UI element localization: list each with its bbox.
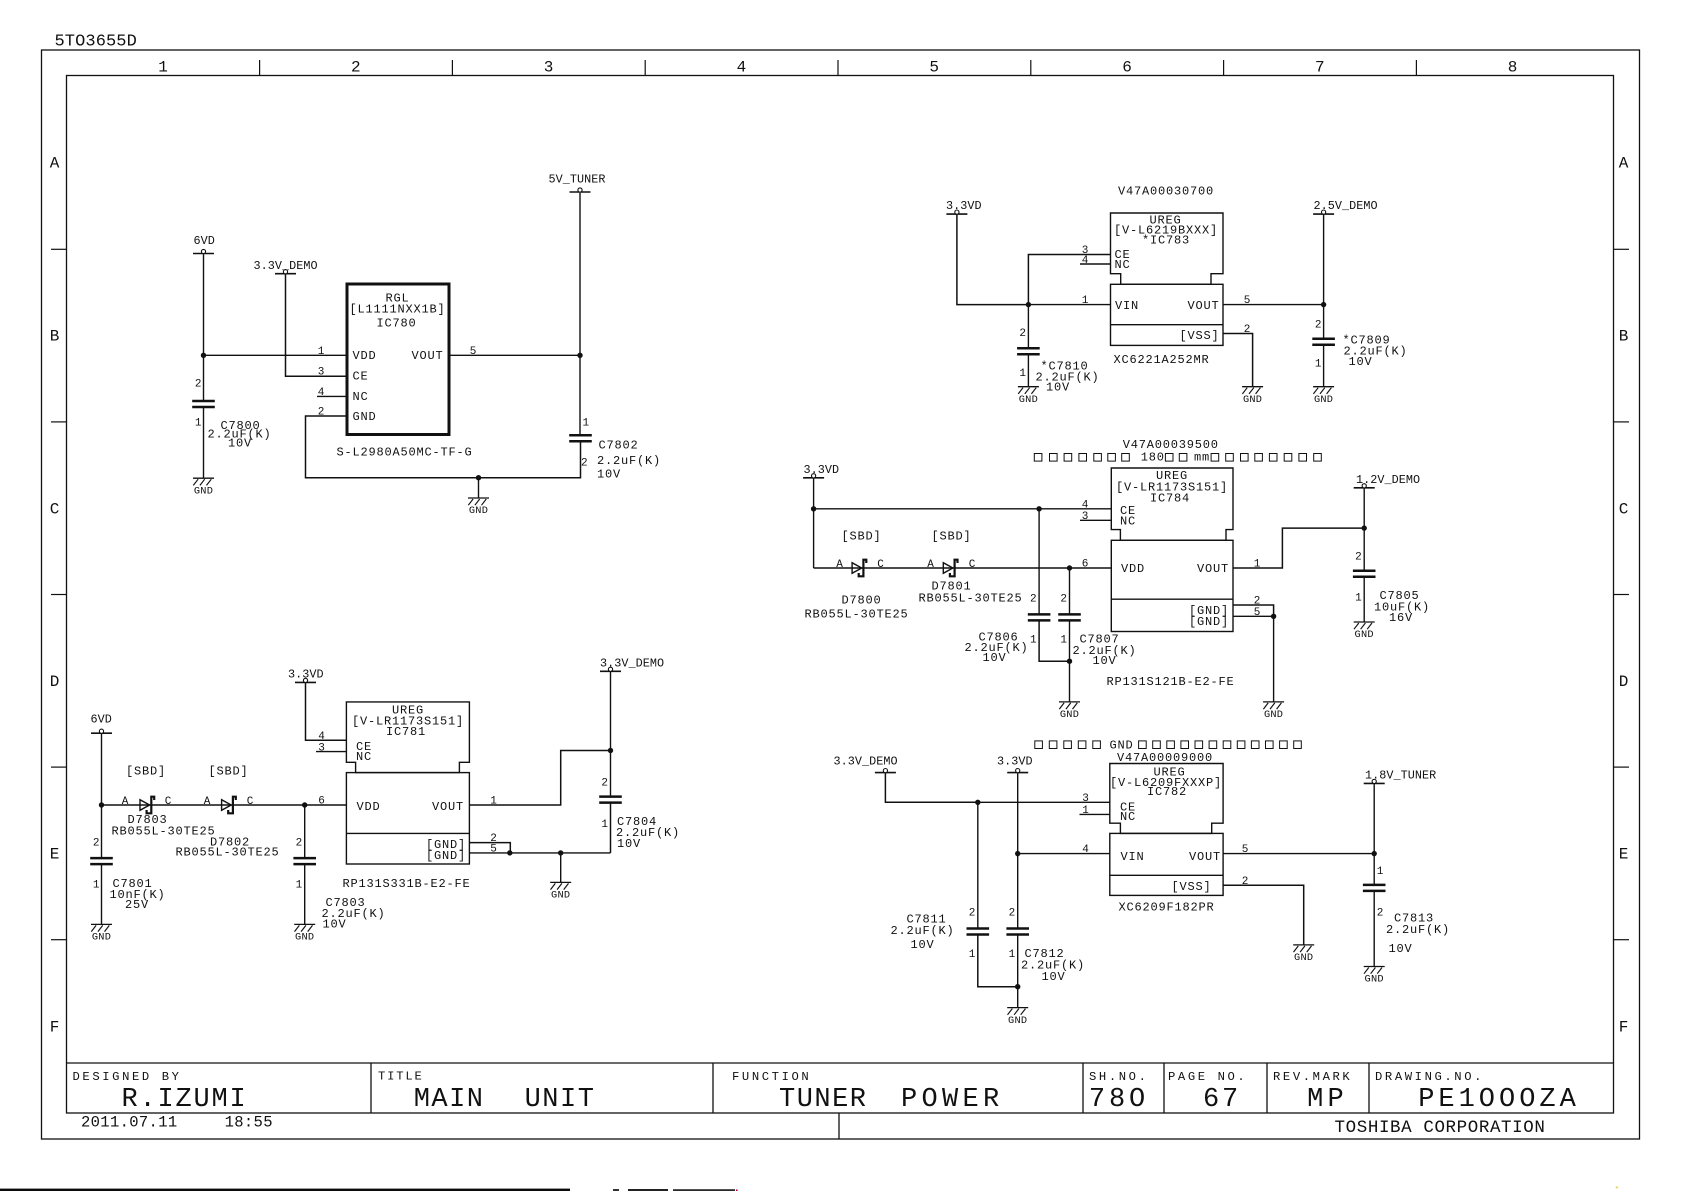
part number S-L2980A50MC-TF-G (337, 446, 473, 460)
wire VIN pin 4 IC782 (1018, 853, 1110, 855)
power terminal 3.3VD (IC782) (997, 754, 1033, 772)
wire IC784 GND pin 5 (1233, 615, 1274, 617)
svg-text:B: B (50, 328, 60, 346)
IC782 pin name VOUT (1189, 850, 1221, 864)
node junction 3.3VD/VIN (1015, 851, 1020, 856)
wire VSS pin 2 IC782 (1223, 885, 1304, 945)
svg-text:1: 1 (1377, 866, 1384, 878)
svg-text:2.5V_DEMO: 2.5V_DEMO (1314, 199, 1378, 213)
svg-text:*IC783: *IC783 (1142, 234, 1190, 248)
value MP (1307, 1085, 1348, 1115)
IC781 pin name VOUT (432, 800, 464, 814)
svg-text:[L1111NXX1B]: [L1111NXX1B] (349, 303, 445, 317)
svg-text:2: 2 (1315, 320, 1322, 332)
svg-text:6VD: 6VD (91, 712, 112, 726)
IC783 pin name VOUT (1187, 299, 1219, 313)
IC784 pin name [GND] lower (1189, 615, 1229, 629)
ground symbol C7813 (1364, 967, 1385, 974)
svg-text:5: 5 (490, 844, 497, 856)
IC782 pin name [VSS] (1171, 880, 1211, 894)
ground label GND IC781 (551, 890, 570, 902)
svg-text:2: 2 (195, 379, 202, 391)
sheet code 5T03655D (55, 33, 137, 52)
capacitor C7804 (599, 797, 622, 803)
pin 3 label IC780 CE (318, 367, 325, 379)
pin 1 label IC782 NC (1082, 805, 1089, 817)
IC783 pin name NC (1115, 258, 1131, 272)
capacitor C7801 (90, 858, 113, 864)
svg-text:10V: 10V (983, 651, 1007, 665)
svg-text:GND: GND (1264, 709, 1283, 721)
pin 1 label C7812 (1009, 949, 1016, 961)
IC782 pin name VIN (1121, 850, 1145, 864)
svg-text:2: 2 (1242, 876, 1249, 888)
IC784 pin name CE (1120, 504, 1136, 518)
capacitor C7802 (569, 435, 592, 441)
pin 1 label C7813 (1377, 866, 1384, 878)
anode label A D7801 (927, 559, 934, 571)
svg-text:6: 6 (1122, 59, 1132, 77)
wire CE rail to pin 3 (978, 801, 1110, 803)
svg-text:1: 1 (1082, 805, 1089, 817)
diode D7800 (852, 560, 866, 577)
svg-text:18:55: 18:55 (225, 1114, 273, 1132)
svg-text:MAIN: MAIN (414, 1085, 485, 1115)
wire C7810 to ground (1027, 354, 1029, 386)
pin 1 label C7809 (1315, 359, 1322, 371)
svg-text:[VSS]: [VSS] (1171, 880, 1211, 894)
cathode label C D7800 (877, 559, 884, 571)
svg-text:3.3V_DEMO: 3.3V_DEMO (834, 754, 898, 768)
wire diode rail to VDD (102, 804, 347, 806)
svg-text:2.2uF(K): 2.2uF(K) (1386, 923, 1450, 937)
svg-text:16V: 16V (1389, 611, 1413, 625)
svg-text:IC782: IC782 (1147, 785, 1187, 799)
wire IC781 GND pin 2 (469, 843, 510, 853)
IC781 pin name NC (356, 750, 372, 764)
value label C7807 2.2uF(K) 10V (1073, 632, 1137, 668)
svg-text:1: 1 (969, 949, 976, 961)
ground symbol IC782 VSS (1293, 945, 1314, 952)
power terminal 2.5V_DEMO (1313, 199, 1378, 214)
ground symbol C7810 (1018, 387, 1039, 394)
svg-text:6VD: 6VD (194, 234, 215, 248)
svg-text:GND: GND (1060, 709, 1079, 721)
wire IC784 GND to ground (1273, 616, 1275, 702)
svg-text:2: 2 (1009, 907, 1016, 919)
svg-text:3.3VD: 3.3VD (804, 463, 840, 477)
node junction C7806/C7807 ground (1067, 659, 1072, 664)
svg-text:1: 1 (1060, 634, 1067, 646)
wire C7807 to ground (1069, 620, 1071, 702)
pin 4 stub IC783 NC (1080, 263, 1111, 265)
svg-text:V47A00030700: V47A00030700 (1118, 184, 1214, 198)
svg-text:10V: 10V (228, 437, 252, 451)
svg-text:3.3VD: 3.3VD (288, 668, 324, 682)
IC784 pin name NC (1120, 515, 1136, 529)
svg-text:1: 1 (296, 880, 303, 892)
svg-text:1: 1 (583, 418, 590, 430)
ground label GND IC780 (469, 505, 488, 517)
svg-text:[VSS]: [VSS] (1179, 329, 1219, 343)
svg-text:2: 2 (1254, 596, 1261, 608)
pin 2 label C7809 (1315, 320, 1322, 332)
wire C7807 vertical (1069, 568, 1071, 614)
svg-text:F: F (1619, 1018, 1629, 1036)
svg-text:NC: NC (1120, 515, 1136, 529)
wire ground rail stub (478, 478, 480, 498)
ground symbol IC783 VSS (1242, 387, 1263, 394)
label REV.MARK (1273, 1070, 1352, 1084)
pin 2 label C7812 (1009, 907, 1016, 919)
pin 2 label C7811 (969, 907, 976, 919)
placeholder glyph boxes row (left) with 180 mm note (1034, 451, 1321, 465)
row ticks left band (51, 249, 67, 939)
IC783 name labels UREG [V-L6219BXXX] *IC783 (1114, 214, 1218, 248)
svg-text:PE1OOOZA: PE1OOOZA (1418, 1085, 1580, 1115)
wire C7801 to ground (101, 864, 103, 924)
ground symbol C7805 (1354, 622, 1375, 629)
IC780 name labels RGL [L1111NXX1B] IC780 (349, 292, 445, 331)
pin 2 label C7800 (195, 379, 202, 391)
value label C7804 2.2uF(K) 10V (616, 815, 680, 851)
capacitor C7800 (192, 401, 215, 407)
svg-text:B: B (1619, 328, 1629, 346)
op-amp U IC782 top box (1110, 764, 1223, 834)
node junction ground rail (476, 475, 481, 480)
svg-text:67: 67 (1203, 1085, 1241, 1115)
IC784 name labels UREG [V-LR1173S151] IC784 (1116, 469, 1228, 505)
anode label A D7800 (836, 559, 843, 571)
pin 4 label IC781 CE (318, 731, 325, 743)
pin 5 label IC781 GND (490, 844, 497, 856)
anode label A D7803 (122, 796, 129, 808)
node junction diode rail / C7803 (302, 802, 307, 807)
power terminal 3.3VD (IC783) (946, 199, 982, 214)
svg-text:RB055L-30TE25: RB055L-30TE25 (176, 845, 280, 859)
IC780 pin name VDD (353, 349, 377, 363)
svg-text:6: 6 (1082, 559, 1089, 571)
ground symbol C7809 (1313, 387, 1334, 394)
wire 3.3VD to CE pin IC781 (306, 683, 347, 740)
part number RP131S331B-E2-FE (343, 877, 471, 891)
ground label GND C7810 (1019, 394, 1038, 406)
power terminal 3.3VD (IC781) (288, 668, 324, 683)
svg-text:4: 4 (1082, 499, 1089, 511)
svg-text:7: 7 (1315, 59, 1325, 77)
IC784 pin name [GND] upper (1189, 604, 1229, 618)
node junction 6VD/diode rail (99, 802, 104, 807)
value label C7811 2.2uF(K) 10V (891, 913, 955, 953)
svg-text:GND: GND (295, 932, 314, 944)
pin 1 stub IC782 NC (1080, 813, 1110, 815)
svg-text:NC: NC (1120, 810, 1136, 824)
ref label D7800 RB055L-30TE25 (805, 593, 909, 621)
svg-text:3.3V_DEMO: 3.3V_DEMO (254, 259, 318, 273)
pin 2 label C7801 (93, 838, 100, 850)
ground label GND IC783 VSS (1243, 394, 1262, 406)
ground symbol C7800 (193, 478, 214, 485)
capacitor C7810 (1017, 348, 1040, 354)
svg-text:2: 2 (969, 907, 976, 919)
svg-text:1: 1 (1019, 368, 1026, 380)
ground label GND IC782 VSS (1294, 952, 1313, 964)
wire C7809 to ground (1323, 345, 1325, 387)
wire C7804 bottom to ground rail (610, 803, 612, 853)
svg-text:D7800: D7800 (842, 593, 882, 607)
svg-text:10V: 10V (1093, 654, 1117, 668)
svg-text:3: 3 (318, 367, 325, 379)
pin 5 label IC783 VOUT (1244, 295, 1251, 307)
IC784 pin name VDD (1121, 562, 1145, 576)
value label C7812 2.2uF(K) 10V (1021, 947, 1085, 984)
svg-text:VIN: VIN (1121, 850, 1145, 864)
node junction IC784 GND pins (1271, 614, 1276, 619)
svg-text:TUNER: TUNER (779, 1085, 868, 1115)
wire C7803 vertical (304, 805, 306, 858)
capacitor C7806 (1028, 614, 1051, 620)
pin 2 label C7802 (581, 458, 588, 470)
net label [SBD] D7800 (842, 530, 882, 544)
wire CE tie to VIN (1028, 255, 1110, 305)
svg-text:5: 5 (1242, 844, 1249, 856)
svg-text:2: 2 (581, 458, 588, 470)
svg-text:GND: GND (551, 890, 570, 902)
column ticks top band (260, 60, 1417, 76)
svg-text:[GND]: [GND] (426, 849, 466, 863)
label DESIGNED BY (73, 1070, 182, 1084)
svg-text:E: E (50, 846, 60, 864)
pin 5 label IC780 VOUT (470, 346, 477, 358)
wire C7800 to ground (203, 407, 205, 478)
svg-text:XC6221A252MR: XC6221A252MR (1114, 353, 1210, 367)
value label C7800 2.2uF(K) 10V (208, 419, 272, 451)
wire VOUT pin 5 IC782 (1223, 853, 1374, 855)
IC781 name labels UREG [V-LR1173S151] IC781 (352, 703, 464, 739)
label TITLE (378, 1070, 424, 1084)
node junction VDD rail / C7807 (1067, 565, 1072, 570)
part code V47A00009000 (1117, 751, 1213, 765)
svg-text:RB055L-30TE25: RB055L-30TE25 (805, 607, 909, 621)
title block dividers (371, 1063, 1369, 1139)
pin 4 label IC784 CE (1082, 499, 1089, 511)
svg-text:2: 2 (1030, 594, 1037, 606)
ground label GND C7813 (1365, 974, 1384, 986)
svg-text:2: 2 (318, 407, 325, 419)
power terminal 1.2V_DEMO (1354, 473, 1420, 488)
wire GND stub IC781 (560, 853, 562, 883)
svg-text:2: 2 (296, 838, 303, 850)
svg-text:VOUT: VOUT (1189, 850, 1221, 864)
wire CE rail to pin 4 (814, 508, 1112, 510)
wire 3.3V_DEMO vertical (IC781) (610, 672, 612, 797)
svg-text:2011.07.11: 2011.07.11 (81, 1114, 178, 1132)
svg-text:5: 5 (1244, 295, 1251, 307)
svg-text:F: F (50, 1018, 60, 1036)
svg-text:DESIGNED BY: DESIGNED BY (73, 1070, 182, 1084)
part number RP131S121B-E2-FE (1107, 675, 1235, 689)
svg-text:VDD: VDD (353, 349, 377, 363)
value label C7813 2.2uF(K) 10V (1386, 911, 1450, 956)
svg-text:[SBD]: [SBD] (842, 530, 882, 544)
svg-text:TOSHIBA CORPORATION: TOSHIBA CORPORATION (1335, 1118, 1546, 1138)
svg-text:GND: GND (1355, 629, 1374, 641)
svg-text:[SBD]: [SBD] (209, 765, 249, 779)
capacitor C7813 (1363, 885, 1386, 891)
ground label GND C7800 (194, 485, 213, 497)
IC781 pin name CE (356, 740, 372, 754)
value label C7801 10nF(K) 25V (110, 877, 166, 912)
svg-text:SH.NO.: SH.NO. (1089, 1070, 1148, 1084)
svg-text:10V: 10V (911, 938, 935, 952)
pin 6 label IC781 VDD (318, 796, 325, 808)
IC784 lower box (1111, 540, 1233, 631)
svg-text:E: E (1619, 846, 1629, 864)
value label C7802 2.2uF(K) 10V (597, 439, 661, 482)
svg-text:5: 5 (929, 59, 939, 77)
ground label GND C7801 (92, 932, 111, 944)
wire VOUT pin 5 IC780 (449, 354, 580, 356)
svg-text:10V: 10V (1042, 970, 1066, 984)
svg-text:D: D (1619, 673, 1629, 691)
capacitor C7805 (1353, 571, 1376, 577)
pin 2 label IC784 GND (1254, 596, 1261, 608)
wire 1.8V_TUNER vertical (1373, 784, 1375, 885)
IC781 pin name [GND] upper (426, 838, 466, 852)
svg-text:5V_TUNER: 5V_TUNER (549, 173, 606, 187)
svg-text:10V: 10V (1349, 355, 1373, 369)
svg-text:GND: GND (469, 505, 488, 517)
svg-text:C: C (50, 500, 60, 518)
ground label GND C7805 (1355, 629, 1374, 641)
label DRAWING.NO. (1375, 1070, 1484, 1084)
wire C7805 to ground (1363, 577, 1365, 622)
svg-text:VDD: VDD (1121, 562, 1145, 576)
svg-text:3: 3 (1082, 793, 1089, 805)
ground symbol IC781 (550, 882, 571, 889)
svg-text:RP131S331B-E2-FE: RP131S331B-E2-FE (343, 877, 471, 891)
pin 1 label C7801 (93, 880, 100, 892)
svg-text:C: C (969, 559, 976, 571)
value label C7806 2.2uF(K) 10V (965, 630, 1029, 665)
wire VOUT pin 5 IC783 (1223, 304, 1324, 306)
pin 3 stub IC784 NC (1080, 519, 1111, 521)
net label [SBD] D7802 (209, 765, 249, 779)
svg-text:R.IZUMI: R.IZUMI (121, 1085, 247, 1115)
node junction C7811/C7812 ground (1015, 984, 1020, 989)
svg-text:10V: 10V (617, 837, 641, 851)
value PE1000ZA (1418, 1085, 1580, 1115)
part number XC6209F182PR (1119, 901, 1215, 915)
cathode label C D7802 (247, 796, 254, 808)
svg-text:VOUT: VOUT (432, 800, 464, 814)
label SH.NO. (1089, 1070, 1148, 1084)
wire 2.5V_DEMO vertical (1323, 215, 1325, 339)
op-amp U IC781 top box (346, 702, 469, 773)
node junction VOUT/3.3V_DEMO (608, 748, 613, 753)
diode D7802 (222, 797, 236, 814)
svg-text:2.2uF(K): 2.2uF(K) (597, 454, 661, 468)
IC781 pin name VDD (357, 800, 381, 814)
svg-text:1: 1 (158, 59, 168, 77)
IC782 pin name CE (1120, 800, 1136, 814)
svg-text:GND: GND (1008, 1015, 1027, 1027)
pin 1 label C7800 (195, 418, 202, 430)
net label [SBD] D7801 (932, 530, 972, 544)
ground label GND C7803 (295, 932, 314, 944)
pin 2 label C7806 (1030, 594, 1037, 606)
svg-text:S-L2980A50MC-TF-G: S-L2980A50MC-TF-G (337, 446, 473, 460)
part number XC6221A252MR (1114, 353, 1210, 367)
pin 4 label IC782 VIN (1082, 844, 1089, 856)
wire C7811 vertical (977, 802, 979, 928)
svg-text:1: 1 (195, 418, 202, 430)
capacitor C7809 (1312, 339, 1335, 345)
svg-text:3.3VD: 3.3VD (997, 754, 1033, 768)
pin 1 label IC784 VOUT (1254, 559, 1261, 571)
svg-text:IC781: IC781 (386, 725, 426, 739)
anode label A D7802 (204, 796, 211, 808)
ground label GND C7809 (1314, 394, 1333, 406)
svg-text:2: 2 (1244, 324, 1251, 336)
svg-text:2: 2 (601, 778, 608, 790)
pin 3 label IC781 NC (318, 742, 325, 754)
svg-text:6: 6 (318, 796, 325, 808)
pin 2 label IC780 GND (318, 407, 325, 419)
node junction VOUT/1.8V_TUNER (1372, 851, 1377, 856)
value label *C7810 2.2uF(K) 10V (1036, 359, 1100, 394)
value 780 (1089, 1085, 1149, 1115)
power terminal 1.8V_TUNER (1364, 769, 1437, 784)
pin 1 label C7805 (1355, 592, 1362, 604)
svg-text:2: 2 (1060, 594, 1067, 606)
value TUNER POWER (779, 1085, 1004, 1115)
wire 3.3V_DEMO to CE pin (286, 274, 348, 376)
ref label D7801 RB055L-30TE25 (919, 579, 1023, 605)
svg-text:10V: 10V (323, 917, 347, 931)
op-amp U IC783 top box (1111, 213, 1224, 284)
diode D7803 (140, 797, 154, 814)
pin 1 label IC783 VIN (1082, 295, 1089, 307)
svg-text:MP: MP (1307, 1085, 1348, 1115)
svg-text:GND: GND (92, 932, 111, 944)
wire C7813 to ground (1373, 891, 1375, 967)
pin 1 label C7802 (583, 418, 590, 430)
pin 3 label IC783 CE (1082, 245, 1089, 257)
ground label GND C7812 (1008, 1015, 1027, 1027)
node junction 3.3VD/CE rail (811, 506, 816, 511)
svg-text:A: A (1619, 155, 1629, 173)
node junction CE rail / C7806 (1036, 506, 1041, 511)
wire 1.2V_DEMO vertical (1363, 489, 1365, 571)
wire 3.3VD vertical (IC782) (1017, 773, 1019, 928)
IC782 name labels UREG [V-L6209FXXXP] IC782 (1110, 765, 1222, 799)
part code V47A00039500 (1123, 438, 1219, 452)
IC783 pin name CE (1115, 248, 1131, 262)
pin 1 label C7807 (1060, 634, 1067, 646)
node junction IC781 GND pins (507, 850, 512, 855)
svg-text:D: D (50, 673, 60, 691)
pin 1 label C7810 (1019, 368, 1026, 380)
svg-text:C: C (165, 796, 172, 808)
svg-text:A: A (927, 559, 934, 571)
svg-text:FUNCTION: FUNCTION (732, 1070, 811, 1084)
row letters A-F right (1619, 155, 1629, 1037)
wire IC781 GND pin 5 (469, 852, 509, 854)
IC780 pin name NC (353, 390, 369, 404)
svg-text:[SBD]: [SBD] (932, 530, 972, 544)
value label *C7809 2.2uF(K) 10V (1343, 334, 1408, 370)
